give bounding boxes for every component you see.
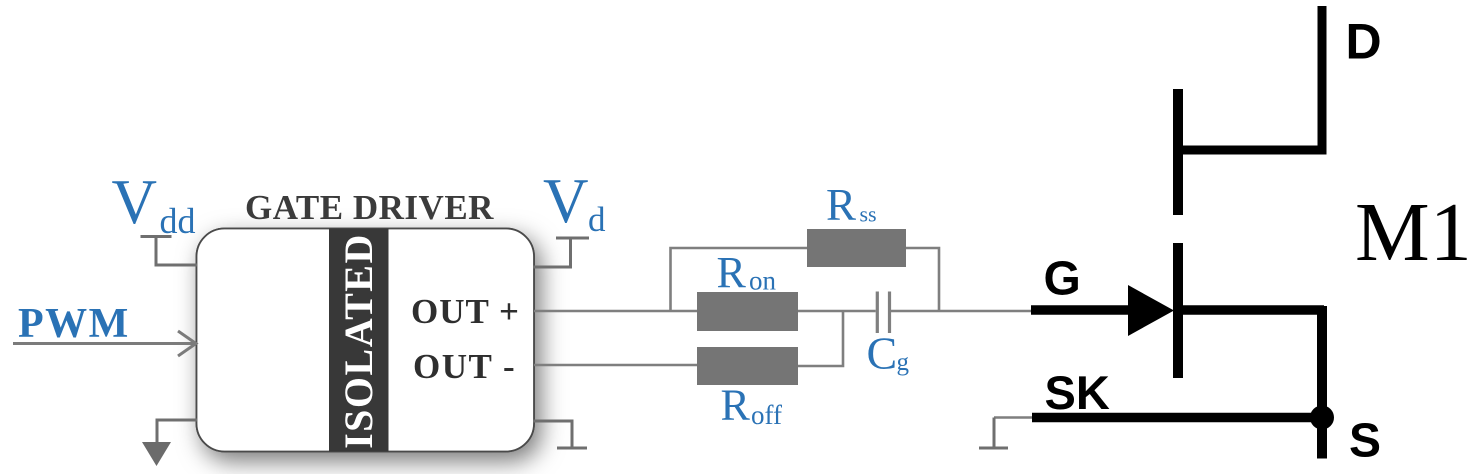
JFET M1 drain lead: [1173, 6, 1322, 150]
svg-text:V: V: [112, 167, 158, 237]
svg-text:GATE DRIVER: GATE DRIVER: [245, 188, 494, 227]
wire capacitor to gate lead: [891, 310, 1034, 313]
isolation barrier bar: [329, 229, 389, 452]
source node dot: [1310, 406, 1334, 430]
svg-text:D: D: [1346, 14, 1382, 70]
wire SK thin: [994, 416, 1034, 419]
JFET M1 source connection: [1183, 305, 1324, 315]
svg-text:OUT -: OUT -: [413, 347, 516, 386]
svg-text:S: S: [1349, 415, 1381, 468]
svg-text:ISOLATED: ISOLATED: [336, 233, 381, 449]
wire OUT+ to capacitor: [534, 310, 876, 313]
JFET M1 gate lead: [1031, 305, 1140, 315]
svg-text:R: R: [717, 248, 747, 297]
PWM arrowhead: [178, 331, 196, 356]
svg-text:OUT +: OUT +: [411, 292, 520, 331]
JFET M1 upper channel bar: [1173, 89, 1183, 215]
svg-text:g: g: [897, 349, 910, 376]
wire Rss to node: [906, 248, 939, 311]
resistor Rss: [807, 229, 906, 267]
svg-text:R: R: [826, 180, 856, 230]
svg-text:V: V: [543, 166, 589, 236]
SK ground terminal: [979, 418, 1008, 449]
gate driver box U1: [197, 229, 535, 452]
resistor Roff: [697, 347, 798, 385]
wire OUT- to Roff: [534, 364, 697, 367]
driver common wire: [157, 420, 197, 443]
SK lead: [1032, 413, 1326, 423]
svg-text:PWM: PWM: [18, 301, 130, 347]
JFET M1 source vertical: [1317, 306, 1327, 459]
svg-text:ss: ss: [860, 202, 877, 227]
JFET M1 lower channel bar: [1173, 243, 1183, 378]
svg-text:G: G: [1044, 253, 1081, 306]
svg-text:d: d: [588, 200, 606, 239]
svg-text:R: R: [721, 381, 751, 430]
svg-text:M1: M1: [1355, 186, 1472, 279]
Vdd terminal: [141, 237, 198, 266]
svg-text:off: off: [751, 400, 782, 430]
gate driver box U1 shadow: [197, 229, 535, 452]
wire Roff up to node: [798, 311, 843, 366]
PWM input wire: [13, 342, 194, 345]
svg-text:on: on: [749, 266, 777, 296]
svg-text:SK: SK: [1045, 366, 1110, 419]
JFET M1 gate arrow: [1128, 285, 1174, 336]
Vd terminal: [533, 238, 589, 267]
resistor Ron: [697, 292, 798, 331]
ground arrow: [142, 442, 171, 466]
driver bottom-right terminal: [533, 421, 587, 448]
capacitor Cg plates: [877, 292, 889, 334]
svg-text:C: C: [867, 328, 898, 379]
wire junction up to Rss branch: [671, 248, 808, 311]
